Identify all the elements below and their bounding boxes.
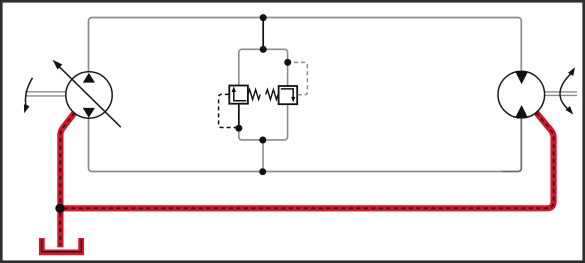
pump top triangle xyxy=(83,73,95,83)
node bottom wire xyxy=(259,168,266,175)
node valve loop top xyxy=(260,46,267,53)
red hose right (motor to junction) xyxy=(60,112,554,208)
pump rotation arrow xyxy=(25,78,32,107)
V2 arrow xyxy=(281,89,293,100)
motor top triangle xyxy=(515,72,528,85)
pilot dashed line V1 xyxy=(219,94,236,127)
relief valve V2 square xyxy=(279,86,298,104)
V1 arrow xyxy=(234,90,246,101)
node valve loop right xyxy=(284,59,291,66)
tank black outline xyxy=(42,239,82,251)
pump P1 circle xyxy=(66,72,112,118)
wire below motor (darker) xyxy=(502,118,521,172)
node valve loop bottom xyxy=(259,137,266,144)
wire main loop xyxy=(89,18,522,172)
black connector top wire to valve loop xyxy=(262,18,264,50)
pump shaft xyxy=(25,92,67,96)
spring V1 xyxy=(248,90,260,100)
node valve loop left xyxy=(235,125,242,132)
relief valve V1 square xyxy=(229,86,248,104)
motor rotation arc xyxy=(560,73,572,112)
wire valve loop xyxy=(239,49,288,140)
motor M1 circle xyxy=(498,71,545,118)
tank red U xyxy=(42,238,81,252)
pilot dashed line V2 xyxy=(291,62,308,94)
pump bottom triangle xyxy=(83,108,95,118)
motor bottom triangle xyxy=(515,105,528,118)
pump variable arrow xyxy=(56,64,121,127)
hose dash overlay right xyxy=(60,112,554,208)
wire lower connector xyxy=(262,140,264,172)
spring V2 xyxy=(266,90,278,100)
hose dash overlay left xyxy=(60,113,74,246)
node top wire xyxy=(260,14,267,21)
black stub left valve to node xyxy=(238,103,240,129)
red hose left (pump to tank) xyxy=(60,113,74,248)
junction node xyxy=(55,204,64,213)
motor shaft xyxy=(544,92,577,96)
